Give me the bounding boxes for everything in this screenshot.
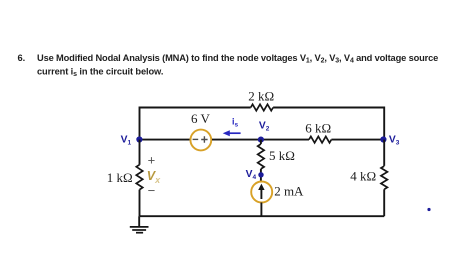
node V2 dot <box>258 137 264 143</box>
svg-text:V3: V3 <box>389 135 400 147</box>
svg-text:current is in the circuit belo: current is in the circuit below. <box>37 67 163 79</box>
wire: middle (6V source to 6k resistor) <box>212 139 309 141</box>
resistor R 4k zigzag <box>381 166 387 189</box>
svg-text:2 mA: 2 mA <box>274 184 304 199</box>
svg-text:5 kΩ: 5 kΩ <box>269 148 295 163</box>
wire: right vertical 4k to bottom <box>383 189 385 216</box>
svg-text:6 V: 6 V <box>191 111 211 126</box>
problem text line 1 <box>18 53 439 65</box>
ground bar 1 <box>130 226 149 228</box>
svg-text:1 kΩ: 1 kΩ <box>107 170 133 185</box>
node V3 dot <box>380 136 386 142</box>
svg-text:V2: V2 <box>259 120 270 132</box>
wire: right vertical V3 to 4k <box>383 140 385 166</box>
node V4 dot <box>258 172 263 177</box>
2mA arrow up <box>258 184 264 199</box>
problem text line 2 <box>37 67 163 79</box>
stray blue dot <box>427 208 430 211</box>
svg-text:V1: V1 <box>121 134 132 146</box>
wire: 2mA to bottom <box>260 203 262 217</box>
svg-text:Use Modified Nodal Analysis (M: Use Modified Nodal Analysis (MNA) to fin… <box>37 53 438 65</box>
wire: V2 down to 5k <box>260 140 262 144</box>
current source 2mA circle <box>251 182 272 203</box>
svg-text:+: + <box>148 153 156 168</box>
resistor R 2k zigzag <box>251 104 273 110</box>
node V1 dot <box>136 136 142 142</box>
6V plus sign <box>201 136 207 142</box>
wire: left vertical 1k to bottom <box>139 190 141 217</box>
svg-text:2 kΩ: 2 kΩ <box>248 89 274 104</box>
ground bar 2 <box>132 229 146 231</box>
resistor R 5k zigzag <box>258 144 264 169</box>
svg-text:4 kΩ: 4 kΩ <box>350 169 376 184</box>
wire: top side left segment <box>140 108 251 140</box>
svg-text:is: is <box>232 117 239 129</box>
ground stem <box>138 216 140 227</box>
svg-text:6.: 6. <box>18 53 26 63</box>
wire: left vertical V1 to 1k <box>139 140 141 165</box>
resistor R 6k zigzag <box>309 136 331 142</box>
wire: middle left (V1 to 6V source) <box>140 139 190 141</box>
wire: bottom side <box>140 215 385 217</box>
wire: middle right (6k to V3) <box>331 139 384 141</box>
svg-text:V4: V4 <box>246 169 257 181</box>
voltage source 6V circle <box>190 130 211 151</box>
wire: top side right segment <box>273 108 384 140</box>
wire: 5k to V4 <box>260 169 262 181</box>
6V minus sign <box>193 138 199 140</box>
svg-text:−: − <box>148 183 156 198</box>
ground bar 3 <box>136 232 143 234</box>
current arrow i_s <box>223 130 241 136</box>
resistor R 1k zigzag <box>136 165 142 190</box>
svg-text:6 kΩ: 6 kΩ <box>305 120 331 135</box>
